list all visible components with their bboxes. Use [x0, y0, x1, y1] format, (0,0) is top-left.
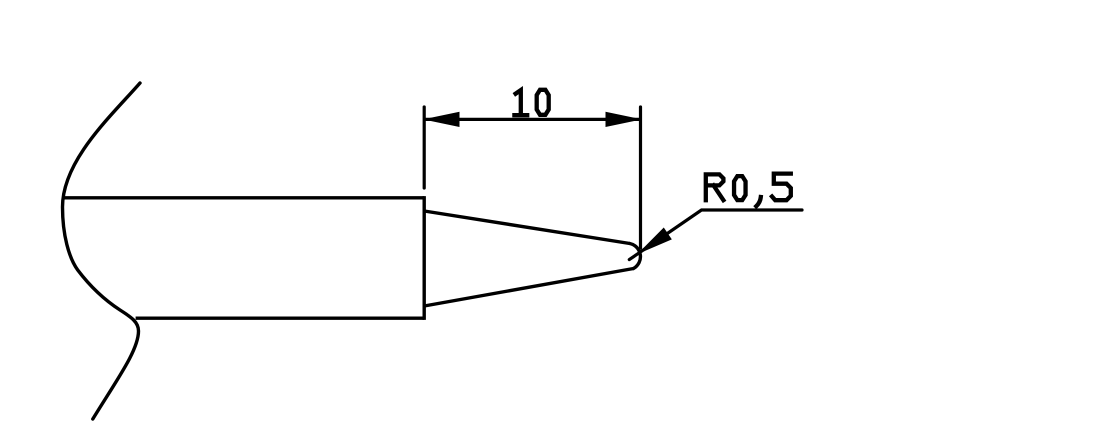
dimension line — [425, 118, 640, 121]
body right edge — [423, 196, 426, 320]
leader arrowhead — [639, 228, 671, 253]
extension line left — [423, 107, 426, 188]
dimension arrowhead right — [606, 112, 640, 126]
extension line right — [639, 107, 642, 248]
break line (S-curve) — [63, 83, 141, 419]
leader line for R0,5 — [629, 210, 802, 260]
tip radius arc R0,5 — [630, 244, 641, 269]
radius text R0,5 — [706, 174, 791, 207]
dimension arrowhead left — [426, 112, 460, 126]
cone taper bottom edge — [424, 269, 633, 307]
body bottom edge — [136, 317, 425, 320]
body top edge — [64, 196, 425, 199]
dimension text 10 — [514, 90, 548, 115]
cone taper top edge — [424, 211, 630, 244]
